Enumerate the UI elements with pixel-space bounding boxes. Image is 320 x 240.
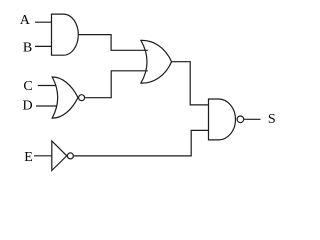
svg-text:S: S <box>268 112 276 127</box>
svg-text:B: B <box>23 40 32 55</box>
svg-text:C: C <box>23 79 32 94</box>
svg-text:E: E <box>24 150 33 165</box>
svg-text:D: D <box>23 98 33 113</box>
svg-text:A: A <box>20 13 31 28</box>
